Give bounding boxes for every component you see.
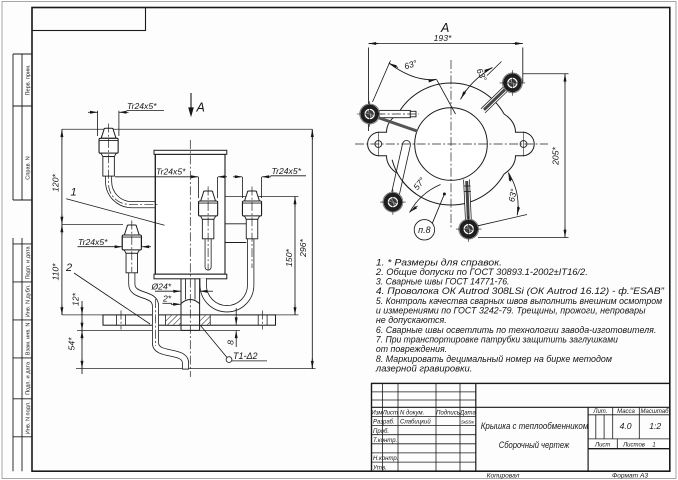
flange plate xyxy=(103,315,276,325)
fittings (donuts) xyxy=(357,101,383,127)
extension line BL cap level xyxy=(62,224,123,226)
svg-text:лазерной гравировки.: лазерной гравировки. xyxy=(375,363,473,373)
svg-text:Проб.: Проб. xyxy=(373,429,389,435)
svg-text:Подп. и дата: Подп. и дата xyxy=(26,246,32,280)
svg-text:Крышка с теплообменником: Крышка с теплообменником xyxy=(481,421,589,431)
svg-text:120*: 120* xyxy=(51,174,61,192)
dimension chain 12/54 xyxy=(81,301,83,374)
connector lines vessel to fitting B xyxy=(225,224,246,243)
pipe TR outline xyxy=(483,88,507,111)
dim Tr24x5 fitting A xyxy=(115,177,227,198)
svg-text:Изм: Изм xyxy=(371,411,382,417)
angle dim 63 top-left xyxy=(373,61,456,115)
main header line xyxy=(372,406,670,408)
svg-text:8: 8 xyxy=(226,340,236,345)
svg-text:Подпись: Подпись xyxy=(436,411,460,417)
dim 8 (collar protrusion) xyxy=(235,308,237,347)
dimension 193 xyxy=(369,44,523,132)
svg-text:N докум.: N докум. xyxy=(400,411,424,417)
right section xyxy=(587,407,589,471)
svg-text:2. Общие допуски по ГОСТ 30893: 2. Общие допуски по ГОСТ 30893.1-2002±IT… xyxy=(375,267,588,277)
svg-text:4. Проволока ОК Autrod 308LSi: 4. Проволока ОК Autrod 308LSi (ОК Autrod… xyxy=(376,286,665,296)
svg-text:Лист: Лист xyxy=(382,411,398,417)
svg-text:не допускаются.: не допускаются. xyxy=(376,315,447,325)
dimension 296 xyxy=(311,129,313,368)
dimension chain 120/110 xyxy=(61,129,63,315)
svg-text:Листов: Листов xyxy=(622,443,645,449)
svg-text:1: 1 xyxy=(652,443,655,449)
centrelines dash-dot xyxy=(109,124,263,378)
central tube bore lines xyxy=(186,279,196,300)
svg-text:Т.контр.: Т.контр. xyxy=(373,438,397,444)
svg-text:1: 1 xyxy=(71,187,77,199)
corner stamp box (rotated designation) xyxy=(32,8,146,31)
central tube outer walls (over S-pipe) xyxy=(181,279,200,302)
flange arc overlay across BL pipe xyxy=(392,160,416,194)
svg-text:7. При транспортировке патрубк: 7. При транспортировке патрубки защитить… xyxy=(376,335,618,345)
svg-text:Формат А3: Формат А3 xyxy=(612,472,648,479)
dim Tr24x5 fitting B xyxy=(233,176,306,198)
svg-text:2: 2 xyxy=(65,262,72,274)
svg-text:Слабицкий: Слабицкий xyxy=(400,419,431,426)
svg-text:от повреждения.: от повреждения. xyxy=(376,344,447,354)
svg-text:п.8: п.8 xyxy=(418,225,430,235)
svg-text:110*: 110* xyxy=(51,263,61,281)
inner tube of fitting A inside vessel xyxy=(205,238,212,267)
svg-text:205*: 205* xyxy=(551,147,561,166)
section arrow A xyxy=(188,93,205,117)
fitting B (right union) xyxy=(242,191,261,239)
extension line fittings cap level for 150 xyxy=(218,196,299,198)
svg-text:Т1-Δ2: Т1-Δ2 xyxy=(233,351,258,361)
pipe L horizontal collar xyxy=(379,110,416,117)
svg-text:ЅкЅЅж: ЅкЅЅж xyxy=(461,419,475,424)
left rows xyxy=(372,415,476,417)
ear holes xyxy=(375,141,527,148)
svg-text:Лит.: Лит. xyxy=(592,409,607,415)
pipe BL stadium xyxy=(395,145,407,199)
left margin rotated labels xyxy=(26,64,32,434)
fitting BL (lower-left union) xyxy=(122,225,141,273)
pipe BC outline xyxy=(467,180,469,221)
name cell xyxy=(481,421,589,450)
svg-text:и измерениями по ГОСТ 3242-79.: и измерениями по ГОСТ 3242-79. Трещины, … xyxy=(376,306,646,316)
angle dim 63 top-right xyxy=(461,62,502,100)
dim Ø24 xyxy=(155,290,213,292)
fitting TL (top-left union) xyxy=(99,128,118,176)
plate hatching right xyxy=(200,315,211,325)
dim Tr24x5 lower-left fitting xyxy=(78,236,152,247)
right ear xyxy=(504,114,534,174)
svg-text:Подп. и дата: Подп. и дата xyxy=(26,361,32,395)
S-pipe from lower-left fitting xyxy=(132,266,189,369)
U-loop pipe from fitting B to vessel bottom xyxy=(203,239,251,309)
vessel body xyxy=(154,150,227,279)
svg-text:296*: 296* xyxy=(298,239,308,258)
extension line plate top level xyxy=(62,314,299,316)
plate bolt hole left xyxy=(117,315,126,325)
pipe L hatched band xyxy=(378,118,418,132)
svg-text:Перв. прим.: Перв. прим. xyxy=(26,64,32,95)
svg-text:Tr24x5*: Tr24x5* xyxy=(272,166,302,176)
svg-text:Сборочный чертеж: Сборочный чертеж xyxy=(499,440,570,450)
left verticals xyxy=(382,383,384,471)
vessel left wall redraw xyxy=(154,154,156,274)
dimension 205 xyxy=(478,74,569,238)
dim Tr24x5 top-left fitting xyxy=(88,111,164,136)
svg-text:1. * Размеры для справок.: 1. * Размеры для справок. xyxy=(376,257,502,267)
svg-text:12*: 12* xyxy=(71,292,81,306)
svg-text:Масса: Масса xyxy=(617,409,635,415)
svg-text:Инв. N подл.: Инв. N подл. xyxy=(26,401,32,434)
svg-text:Инв. N дубл.: Инв. N дубл. xyxy=(26,284,32,317)
flange outline: main circle arcs xyxy=(368,83,535,205)
centrelines of top view xyxy=(355,60,548,228)
svg-text:Справ. N: Справ. N xyxy=(26,156,32,179)
extension line top (cap level y=127.6) xyxy=(62,128,312,130)
svg-text:Разраб.: Разраб. xyxy=(373,420,395,426)
note balloon n.8 xyxy=(414,195,444,241)
svg-text:6. Сварные швы осветлить по те: 6. Сварные швы осветлить по технологии з… xyxy=(376,325,656,335)
svg-text:54*: 54* xyxy=(67,337,77,351)
left margin column boxes xyxy=(13,54,32,471)
svg-text:Tr24x5*: Tr24x5* xyxy=(156,167,186,177)
svg-text:4.0: 4.0 xyxy=(620,421,632,431)
svg-text:Лист: Лист xyxy=(594,443,610,449)
extension line bottom (pipe end) xyxy=(76,368,316,370)
angle dim 63 bottom-right xyxy=(478,173,527,226)
left ear xyxy=(368,114,398,174)
fitting A (on vessel) xyxy=(199,191,218,239)
top extension grid rows xyxy=(372,391,476,393)
svg-text:3. Сварные швы ГОСТ 14771-76.: 3. Сварные швы ГОСТ 14771-76. xyxy=(376,277,510,287)
central collar through plate xyxy=(181,300,200,331)
plate hatching left xyxy=(166,315,182,325)
angle dim 57 bottom-left xyxy=(410,185,441,213)
weld mark T1-D2 xyxy=(201,326,268,363)
dim 2 (wall) xyxy=(163,303,181,304)
extension line collar bottom xyxy=(77,329,240,331)
svg-text:193*: 193* xyxy=(434,33,452,43)
bottom margin labels xyxy=(487,472,649,479)
svg-text:Ø24*: Ø24* xyxy=(151,281,172,291)
svg-text:5. Контроль качества сварных ш: 5. Контроль качества сварных швов выполн… xyxy=(376,296,663,306)
svg-text:Масштаб: Масштаб xyxy=(640,409,669,415)
dimension 150 xyxy=(294,197,296,315)
svg-text:8. Маркировать децимальный ном: 8. Маркировать децимальный номер на бирк… xyxy=(376,354,613,364)
header tiny labels xyxy=(371,411,476,472)
svg-text:Tr24x5*: Tr24x5* xyxy=(78,237,108,247)
svg-text:Копировал: Копировал xyxy=(487,472,520,479)
elbow pipe from top-left fitting into vessel xyxy=(109,175,155,205)
right cells xyxy=(592,409,669,449)
svg-text:Н.контр.: Н.контр. xyxy=(373,456,398,462)
svg-text:Tr24x5*: Tr24x5* xyxy=(127,101,157,111)
plate bolt hole right xyxy=(258,315,267,325)
central circle xyxy=(415,108,488,181)
svg-text:А: А xyxy=(196,101,205,115)
svg-text:Взам. инв. N: Взам. инв. N xyxy=(26,323,32,356)
svg-text:2*: 2* xyxy=(162,294,172,304)
svg-text:Утв.: Утв. xyxy=(372,465,387,471)
svg-text:150*: 150* xyxy=(284,249,294,267)
svg-text:1:2: 1:2 xyxy=(649,421,661,431)
svg-text:Дата: Дата xyxy=(459,411,476,417)
